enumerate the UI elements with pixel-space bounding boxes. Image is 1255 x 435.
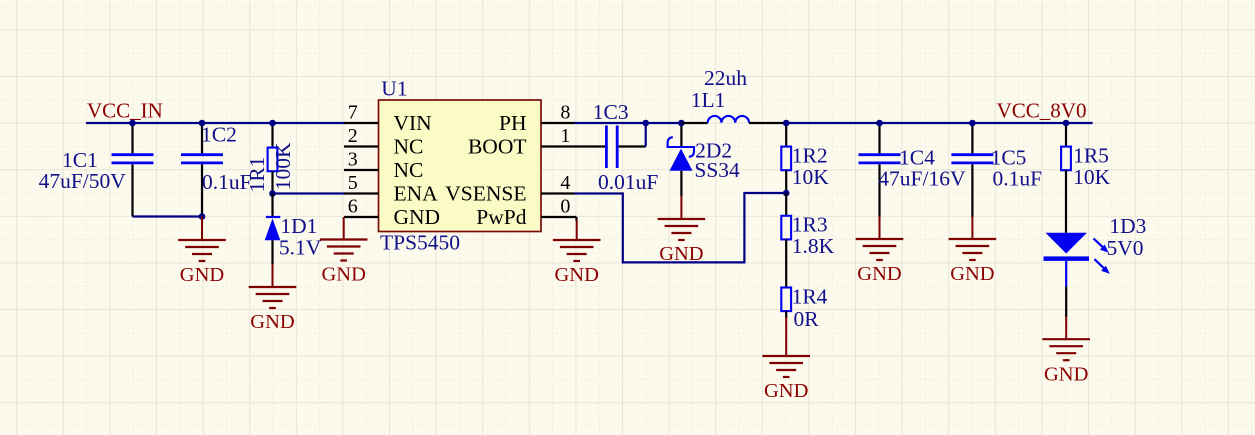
inductor 1L1 right lead [749, 122, 786, 124]
LED 1D3 bottom lead (blue) [1065, 261, 1067, 287]
svg-text:47uF/16V: 47uF/16V [878, 167, 966, 191]
ground (below D3) [1042, 317, 1090, 386]
inductor 1L1 [708, 116, 749, 123]
svg-text:0.01uF: 0.01uF [598, 170, 658, 194]
pin 4 (VSENSE) stub [541, 192, 575, 194]
junction at 1C4/VCC rail [876, 120, 883, 127]
svg-text:1R2: 1R2 [792, 144, 828, 168]
zener diode 1D1 top lead [271, 194, 273, 218]
ground (below 1C4) [856, 217, 904, 286]
capacitor 1C3 right lead [619, 145, 646, 147]
svg-text:0R: 0R [794, 307, 820, 331]
wire C3 to PH rail [645, 123, 647, 147]
capacitor 1C1 top lead [131, 123, 133, 153]
wire PwPd to ground [575, 217, 577, 221]
resistor 1R4 [781, 288, 791, 312]
resistor 1R5 [1061, 147, 1071, 171]
junction at C3/PH rail [642, 120, 649, 127]
svg-text:1R4: 1R4 [792, 285, 828, 309]
capacitor 1C5 top lead [971, 123, 973, 153]
svg-text:1C3: 1C3 [593, 100, 629, 124]
wire PH node [575, 122, 682, 124]
junction at R1/ENA node [269, 190, 276, 197]
wire VSENSE feedback [575, 193, 787, 262]
capacitor 1C4 [859, 155, 901, 163]
svg-text:1R5: 1R5 [1073, 144, 1109, 168]
junction at C2 ground node [199, 213, 206, 220]
junction at C1/VIN rail [129, 120, 136, 127]
pin 2 (NC) stub [344, 145, 379, 147]
svg-text:TPS5450: TPS5450 [380, 231, 460, 255]
svg-text:ENA: ENA [394, 182, 439, 206]
pin 0 (PwPd) stub [541, 216, 577, 218]
ground (below D1) [249, 264, 297, 333]
capacitor 1C4 bottom lead [878, 164, 880, 217]
LED 1D3 arrows [1094, 239, 1110, 274]
capacitor 1C5 [951, 155, 993, 163]
svg-text:GND: GND [180, 264, 224, 286]
junction at R1/VIN rail [269, 120, 276, 127]
op-amp U1 TPS5450 body [379, 100, 542, 232]
pin 5 (ENA) stub [344, 192, 379, 194]
capacitor 1C1 bottom lead [131, 164, 133, 216]
capacitor 1C4 top lead [878, 123, 880, 153]
svg-text:VSENSE: VSENSE [445, 182, 526, 206]
wire VCC_8V0 rail [786, 122, 1092, 124]
svg-text:VCC_8V0: VCC_8V0 [997, 99, 1087, 123]
svg-text:5V0: 5V0 [1107, 236, 1144, 260]
pin 7 (VIN) stub [344, 122, 379, 124]
svg-text:22uh: 22uh [704, 66, 747, 90]
svg-text:GND: GND [1044, 363, 1088, 385]
svg-text:5.1V: 5.1V [279, 236, 322, 260]
resistor 1R4 bottom lead [785, 311, 787, 318]
wire VCC_IN rail [86, 122, 345, 124]
svg-text:1C2: 1C2 [201, 123, 237, 147]
ground (below D2) [658, 196, 706, 265]
capacitor 1C3 [606, 126, 617, 169]
svg-text:PwPd: PwPd [476, 205, 526, 229]
pin 3 (NC) stub [344, 169, 379, 171]
capacitor 1C2 bottom lead [201, 164, 203, 216]
svg-text:6: 6 [348, 196, 358, 218]
resistor 1R1 top lead [271, 123, 273, 148]
pin 8 (PH) stub [541, 122, 575, 124]
svg-text:GND: GND [764, 380, 808, 402]
resistor 1R2 bottom lead [785, 170, 787, 193]
svg-text:2: 2 [348, 125, 358, 147]
capacitor 1C1 [112, 155, 154, 163]
svg-text:8: 8 [560, 102, 570, 124]
junction at R2/R3 node [783, 190, 790, 197]
svg-text:VCC_IN: VCC_IN [87, 99, 163, 123]
ground (below R4) [762, 317, 810, 402]
resistor 1R5 top lead [1065, 123, 1067, 147]
svg-text:100K: 100K [271, 142, 295, 190]
junction at 1C5/VCC rail [969, 120, 976, 127]
ground (below PwPd) [553, 220, 601, 286]
svg-text:1D3: 1D3 [1109, 214, 1146, 238]
svg-text:BOOT: BOOT [468, 135, 527, 159]
svg-text:GND: GND [321, 264, 365, 286]
svg-text:U1: U1 [381, 77, 407, 101]
svg-text:GND: GND [950, 263, 994, 285]
svg-text:SS34: SS34 [694, 158, 740, 182]
resistor 1R1 bottom lead [271, 171, 273, 193]
wire ENA (R1 node to pin 5) [273, 192, 346, 194]
svg-text:5: 5 [348, 172, 358, 194]
inductor 1L1 left lead [681, 122, 707, 124]
svg-text:0: 0 [560, 196, 570, 218]
pin 6 (GND) stub [344, 216, 379, 218]
schottky diode 2D2 [668, 137, 694, 171]
svg-text:GND: GND [394, 205, 441, 229]
junction at C2/VIN rail [199, 120, 206, 127]
svg-text:GND: GND [554, 264, 598, 286]
ground (below pin 6 GND) [320, 217, 368, 286]
junction at D2/PH rail [678, 120, 685, 127]
ground (below C2) [178, 217, 226, 287]
pin 1 (BOOT) stub [541, 145, 575, 147]
svg-text:1D1: 1D1 [280, 214, 317, 238]
capacitor 1C2 [181, 155, 223, 163]
capacitor 1C2 top lead [201, 123, 203, 153]
junction at R2/VCC rail [783, 120, 790, 127]
junction at R5/VCC rail [1063, 120, 1070, 127]
schottky diode 2D2 top lead [680, 123, 682, 147]
LED 1D3 [1044, 233, 1090, 261]
zener diode 1D1 [265, 217, 281, 240]
svg-text:NC: NC [394, 135, 424, 159]
svg-text:10K: 10K [1073, 165, 1111, 189]
resistor 1R3 bottom lead [785, 239, 787, 287]
svg-text:4: 4 [560, 172, 570, 194]
LED 1D3 bottom lead [1065, 287, 1067, 317]
resistor 1R2 top lead [785, 123, 787, 147]
resistor 1R2 [781, 147, 791, 171]
capacitor 1C3 left lead [575, 145, 606, 147]
schottky diode 2D2 bottom lead [680, 171, 682, 197]
svg-text:10K: 10K [792, 165, 830, 189]
capacitor 1C5 bottom lead [971, 164, 973, 217]
svg-text:0.1uF: 0.1uF [993, 167, 1043, 191]
ground (below 1C5) [949, 217, 997, 286]
svg-text:1.8K: 1.8K [792, 234, 835, 258]
svg-text:1R3: 1R3 [792, 213, 828, 237]
resistor 1R5 bottom lead [1065, 170, 1067, 233]
svg-text:1L1: 1L1 [691, 88, 726, 112]
svg-text:PH: PH [499, 111, 526, 135]
zener diode 1D1 bottom lead [271, 240, 273, 264]
resistor 1R3 [781, 216, 791, 240]
svg-text:47uF/50V: 47uF/50V [39, 169, 127, 193]
svg-text:3: 3 [348, 149, 358, 171]
svg-text:GND: GND [857, 263, 901, 285]
svg-text:NC: NC [394, 158, 424, 182]
resistor 1R3 top lead [785, 193, 787, 216]
resistor 1R1 [268, 148, 278, 172]
svg-text:1R1: 1R1 [245, 157, 269, 193]
svg-text:1: 1 [560, 125, 570, 147]
svg-text:7: 7 [348, 102, 358, 124]
wire C1/C2 bottom [133, 215, 203, 217]
svg-text:VIN: VIN [394, 111, 433, 135]
svg-text:GND: GND [250, 311, 294, 333]
